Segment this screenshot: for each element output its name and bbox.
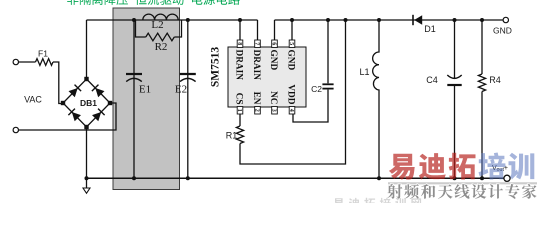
svg-text:2: 2	[253, 109, 259, 112]
svg-text:7: 7	[253, 42, 259, 45]
IC pins bottom (1 2 3 4)	[237, 107, 295, 115]
svg-text:C2: C2	[311, 84, 322, 94]
svg-text:DRAIN: DRAIN	[234, 50, 244, 81]
pin numbers 1 2 3 4	[236, 109, 294, 112]
wire bottom terminal to bridge right vertex	[19, 103, 117, 130]
wire from terminal to F1	[19, 61, 36, 63]
watermark: gray underline	[388, 182, 537, 184]
capacitor C2 on VDD	[327, 20, 329, 83]
svg-text:R4: R4	[489, 75, 501, 85]
svg-text:VDD: VDD	[286, 84, 296, 104]
watermark subtitle	[387, 184, 536, 199]
inductor L1	[373, 20, 379, 178]
svg-text:C4: C4	[426, 75, 438, 85]
svg-text:5: 5	[288, 42, 294, 45]
terminal GND top right	[503, 17, 508, 22]
wire top rail A (DC+ / drain net)	[87, 19, 258, 21]
svg-text:E2: E2	[175, 84, 187, 96]
terminal AC top	[13, 59, 18, 64]
svg-text:4: 4	[288, 109, 294, 112]
svg-text:3: 3	[270, 109, 276, 112]
inductor L2	[143, 14, 178, 20]
svg-text:R1: R1	[226, 131, 238, 141]
capacitor E2	[187, 20, 189, 178]
IC pins top (8 7 6 5)	[240, 20, 292, 40]
svg-text:GND: GND	[268, 50, 278, 71]
IC body U1 SM7513	[228, 47, 306, 107]
terminal Vout+ bottom right	[504, 175, 510, 181]
svg-text:1: 1	[236, 109, 242, 112]
svg-text:D1: D1	[424, 24, 436, 34]
DB1 diode bottom-right	[92, 109, 105, 122]
svg-text:VAC: VAC	[24, 95, 42, 105]
faint bottom fragments	[333, 198, 421, 209]
resistor R4	[481, 20, 483, 74]
svg-text:GND: GND	[493, 26, 512, 36]
svg-text:L2: L2	[151, 19, 163, 31]
svg-text:DB1: DB1	[80, 98, 97, 108]
svg-text:GND: GND	[286, 50, 296, 71]
wire bottom rail	[87, 177, 504, 179]
bridge rectifier DB1	[63, 79, 110, 127]
svg-text:L1: L1	[359, 67, 369, 77]
watermark logo blue 培训	[479, 153, 535, 180]
resistor R2 (parallel with L2)	[136, 20, 146, 37]
DB1 diode bottom-left	[68, 109, 81, 122]
wire bridge bottom vertex down	[86, 127, 88, 188]
svg-text:CS: CS	[234, 93, 244, 105]
wire bridge top vertex to rail A	[86, 20, 88, 79]
EMI filter gray block	[113, 8, 180, 190]
svg-text:DRAIN: DRAIN	[251, 50, 261, 81]
svg-text:EN: EN	[251, 92, 261, 105]
terminal AC bottom	[13, 127, 18, 132]
pin numbers 8 7 6 5	[236, 42, 294, 45]
capacitor C4	[454, 20, 456, 79]
ground symbol	[83, 188, 90, 193]
svg-text:SM7513: SM7513	[210, 47, 222, 88]
DB1 diode top-right	[92, 85, 105, 98]
svg-text:6: 6	[270, 42, 276, 45]
capacitor E1	[133, 20, 135, 178]
green title text (clipped at top edge)	[67, 0, 240, 5]
diode D1	[412, 15, 414, 25]
svg-text:E1: E1	[139, 84, 151, 96]
svg-text:R2: R2	[155, 41, 168, 53]
resistor R1 on CS pin	[239, 114, 241, 126]
fuse F1	[36, 59, 54, 66]
svg-text:F1: F1	[38, 49, 48, 59]
IC pin names	[234, 50, 296, 105]
watermark logo red 易迪拓	[389, 153, 476, 180]
wire F1 to bridge left vertex	[53, 62, 63, 104]
DB1 diode top-left	[68, 85, 81, 98]
svg-text:NC: NC	[268, 91, 278, 104]
svg-text:8: 8	[236, 42, 242, 45]
wire top rail B (switch / gnd net)	[275, 19, 504, 21]
